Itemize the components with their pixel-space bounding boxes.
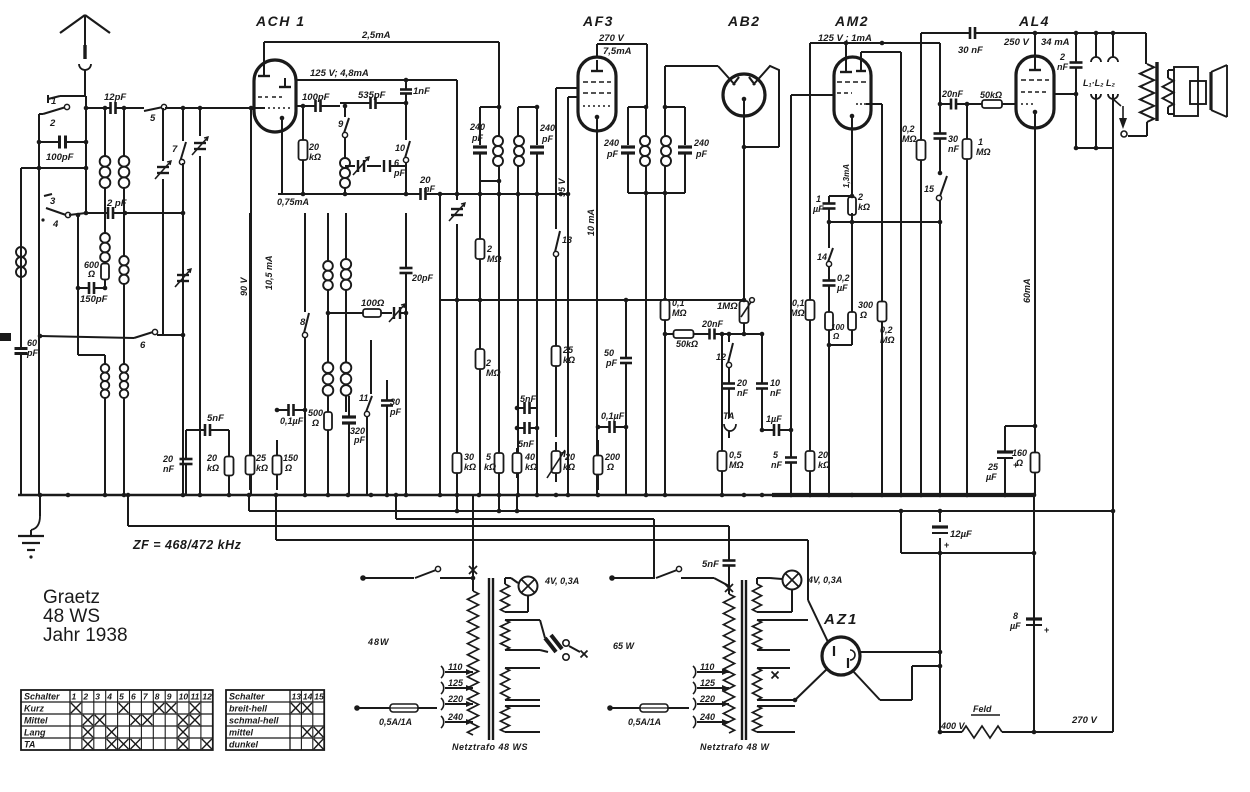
- svg-text:90 V: 90 V: [239, 276, 249, 296]
- resistor 20k am2: [806, 440, 831, 495]
- trimmer x457: [449, 80, 465, 495]
- switch 1 contact: [48, 95, 60, 107]
- trafo2 sec winding d: [753, 706, 796, 732]
- svg-text:5: 5: [773, 450, 779, 460]
- resistor Feld: [938, 704, 1113, 738]
- svg-text:60: 60: [27, 338, 37, 348]
- wire ACH1 grid right: [296, 105, 310, 107]
- svg-text:kΩ: kΩ: [818, 460, 830, 470]
- wire x251 col: [250, 108, 252, 495]
- svg-text:7: 7: [143, 692, 149, 702]
- output transformer primary: [1128, 33, 1154, 136]
- wire 2.5mA rail: [264, 30, 499, 42]
- IF1 primary bottom rail: [480, 179, 501, 194]
- svg-text:0,2: 0,2: [902, 124, 915, 134]
- svg-text:pF: pF: [353, 435, 365, 445]
- capacitor 320pF: [342, 396, 365, 495]
- svg-text:Ω: Ω: [284, 463, 292, 473]
- svg-text:ZF = 468/472 kHz: ZF = 468/472 kHz: [132, 538, 242, 552]
- resistor 0.2M am2: [878, 293, 895, 495]
- wire AZ1 anode top: [808, 540, 828, 642]
- svg-text:pF: pF: [471, 133, 483, 143]
- svg-text:60mA: 60mA: [1022, 278, 1032, 303]
- svg-text:pF: pF: [393, 168, 405, 178]
- resistor 150 ohm: [273, 440, 299, 490]
- svg-text:100Ω: 100Ω: [361, 298, 385, 309]
- switch 3: [44, 194, 71, 218]
- svg-text:nF: nF: [737, 388, 748, 398]
- trafo1 x mark: [469, 495, 477, 591]
- wire AL4 top rail: [921, 31, 1146, 36]
- wire 125V rail: [296, 78, 457, 83]
- wire IF1 feed: [498, 42, 500, 107]
- capacitor 12pF: [100, 92, 126, 114]
- svg-text:4V, 0,3A: 4V, 0,3A: [807, 575, 842, 585]
- svg-text:breit-hell: breit-hell: [229, 704, 268, 714]
- wire speaker return: [1112, 148, 1114, 511]
- IF1 coil secondary: [514, 107, 524, 196]
- svg-text:Kurz: Kurz: [24, 704, 44, 714]
- wire AB2 center down: [743, 99, 745, 299]
- wire x305 col sw8: [300, 213, 309, 495]
- svg-text:14: 14: [817, 252, 827, 262]
- trafo2 taps: [693, 666, 729, 728]
- wire x940 psu col: [939, 511, 941, 732]
- wire AZ1 filament right: [852, 664, 942, 700]
- svg-text:Jahr 1938: Jahr 1938: [43, 625, 128, 646]
- wire 12uF link: [940, 552, 1034, 554]
- wire x901 drop: [901, 511, 942, 555]
- capacitor 20pF: [400, 213, 434, 495]
- capacitor 30pF: [381, 380, 401, 495]
- svg-text:10: 10: [395, 143, 405, 153]
- wire AF3 cathode: [596, 130, 598, 495]
- svg-text:L₂: L₂: [1106, 78, 1115, 88]
- hum coil link L2 b: [1108, 33, 1118, 148]
- svg-text:0,1µF: 0,1µF: [280, 416, 304, 426]
- svg-text:160: 160: [1012, 448, 1027, 458]
- IF1 primary top rail: [480, 105, 501, 110]
- svg-text:schmal-hell: schmal-hell: [229, 716, 279, 726]
- label 400V: [940, 721, 966, 731]
- trafo2 hv mark: [772, 672, 779, 679]
- trafo2 core: [742, 580, 746, 740]
- wire y108 right: [165, 106, 265, 111]
- wire IF1 coil down: [498, 181, 500, 495]
- trafo2 primary winding: [724, 594, 735, 733]
- tube AF3 electrodes: [583, 60, 611, 130]
- label 65W: [613, 641, 636, 651]
- dial lamp left: [505, 577, 538, 613]
- trafo1 core: [489, 578, 493, 740]
- svg-text:4: 4: [52, 219, 59, 230]
- svg-text:12pF: 12pF: [104, 92, 126, 103]
- svg-text:50kΩ: 50kΩ: [980, 90, 1002, 100]
- switch 14: [817, 222, 833, 267]
- resistor 25k af3: [552, 330, 576, 382]
- wire to trafo1: [440, 576, 475, 581]
- svg-text:pF: pF: [389, 407, 401, 417]
- resistor 30k mid: [453, 448, 477, 478]
- wire bias col down: [829, 222, 852, 297]
- antenna: [60, 15, 110, 96]
- svg-text:Mittel: Mittel: [24, 716, 48, 726]
- svg-text:MΩ: MΩ: [486, 368, 501, 378]
- svg-text:8: 8: [300, 317, 306, 328]
- svg-text:30: 30: [948, 134, 958, 144]
- label fuse left: [379, 717, 412, 727]
- wire pot down: [742, 325, 747, 336]
- trimmer osc pair: [345, 157, 381, 175]
- switch 4 contact: [41, 218, 59, 230]
- wire x105 col: [103, 106, 108, 156]
- svg-text:5nF: 5nF: [207, 413, 224, 424]
- capacitor 20nF al4: [940, 89, 969, 110]
- resistor 0.2M x921: [902, 120, 926, 180]
- title 48 WS: [43, 606, 100, 627]
- mains input left: [360, 575, 414, 581]
- svg-text:kΩ: kΩ: [484, 462, 496, 472]
- IF2 secondary top rail: [663, 105, 685, 110]
- capacitor 30nF grid: [934, 120, 960, 154]
- svg-text:6: 6: [131, 692, 136, 702]
- svg-text:10 mA: 10 mA: [586, 209, 596, 236]
- mains switch left: [415, 566, 441, 578]
- capacitor 0.1uF af3: [596, 411, 629, 433]
- capacitor 1uF am2: [812, 194, 854, 216]
- resistor 50k al4: [972, 90, 1012, 108]
- wire AB2 diode link: [742, 145, 779, 150]
- terminal mark left edge: [0, 333, 11, 341]
- svg-text:Lang: Lang: [24, 728, 46, 738]
- wire antenna to sw: [60, 96, 86, 108]
- tube AL4 label: [1018, 13, 1050, 29]
- label 95V: [557, 177, 567, 197]
- label 270V: [598, 33, 624, 44]
- svg-text:4V, 0,3A: 4V, 0,3A: [544, 576, 579, 586]
- wire speaker return lower: [1112, 511, 1114, 732]
- capacitor 20nF det: [701, 319, 724, 340]
- wire AM2 anode rail: [810, 41, 940, 60]
- wire bus line L1: [249, 495, 1113, 511]
- svg-text:0,1µF: 0,1µF: [601, 411, 625, 421]
- trafo1 sec winding a: [501, 578, 512, 612]
- wire cath rail ext: [438, 192, 568, 197]
- resistor 2M upper: [476, 192, 502, 495]
- svg-text:MΩ: MΩ: [672, 308, 687, 318]
- wire det rail: [663, 332, 765, 337]
- capacitor 20nF left: [162, 430, 193, 495]
- svg-text:pF: pF: [695, 149, 707, 159]
- svg-text:30 nF: 30 nF: [958, 45, 983, 56]
- svg-text:+: +: [1044, 625, 1049, 635]
- svg-text:AB2: AB2: [727, 13, 761, 29]
- resistor 0.1M am2 grid: [790, 290, 815, 440]
- wire IF2 coil down: [645, 193, 647, 495]
- svg-text:1MΩ: 1MΩ: [717, 301, 738, 312]
- svg-text:0,2: 0,2: [880, 325, 893, 335]
- svg-text:2: 2: [1059, 52, 1065, 62]
- wire AL4 anode up: [1034, 33, 1036, 59]
- svg-text:100pF: 100pF: [302, 92, 330, 103]
- wire 100ohm link down: [326, 311, 352, 316]
- svg-text:µF: µF: [1009, 621, 1021, 631]
- svg-text:0,5A/1A: 0,5A/1A: [628, 717, 661, 727]
- svg-text:5: 5: [486, 452, 492, 462]
- capacitor 12uF elco: [932, 527, 972, 550]
- switch 6: [38, 329, 186, 351]
- capacitor 5nF mid lower: [515, 422, 540, 449]
- coil osc b bottom: [341, 340, 352, 412]
- switch table 1: [21, 690, 213, 750]
- wire x183 lower: [182, 163, 184, 495]
- tube AF3 envelope: [578, 57, 616, 131]
- resistor 20k ach1: [299, 104, 322, 197]
- svg-text:11: 11: [191, 692, 200, 702]
- wire x940 col: [938, 43, 943, 495]
- junction dots on ground bus: [38, 493, 1037, 498]
- switch 15: [924, 176, 947, 201]
- wire AF3 anode rail: [597, 44, 647, 107]
- capacitor 10nF: [756, 334, 781, 430]
- trafo1 sec winding c: [501, 668, 541, 700]
- svg-text:kΩ: kΩ: [525, 462, 537, 472]
- svg-text:pF: pF: [605, 358, 617, 368]
- svg-text:220: 220: [699, 694, 715, 704]
- svg-text:20: 20: [564, 452, 575, 462]
- label 0.75mA: [277, 197, 309, 207]
- switch 11: [359, 380, 372, 495]
- svg-text:30: 30: [464, 452, 474, 462]
- wire 600ohm bottom: [104, 281, 106, 288]
- IF2 primary top rail: [628, 105, 648, 110]
- svg-text:Schalter: Schalter: [229, 692, 265, 702]
- trafo1 sec winding b: [501, 620, 541, 650]
- svg-text:2,5mA: 2,5mA: [361, 30, 391, 41]
- capacitor 20nF ta: [723, 367, 748, 398]
- svg-text:0,5: 0,5: [729, 450, 743, 460]
- label 250V: [1003, 37, 1029, 48]
- resistor 2k am2: [848, 190, 870, 222]
- resistor 5k mid: [484, 448, 504, 478]
- wire am2 bias rail: [827, 213, 943, 224]
- resistor 300 ohm am2: [848, 297, 873, 345]
- tube AB2 label: [727, 13, 761, 29]
- resistor 600 ohm: [84, 260, 109, 281]
- switch table 2: [226, 690, 324, 750]
- svg-text:8: 8: [1013, 611, 1018, 621]
- wire grid rail: [967, 103, 1016, 105]
- label 10.5mA: [264, 255, 274, 290]
- speaker magnet: [1190, 81, 1206, 104]
- svg-text:250 V: 250 V: [1003, 37, 1029, 48]
- capacitor 100pF input: [39, 136, 86, 164]
- label 60mA: [1022, 278, 1032, 303]
- svg-text:240: 240: [603, 138, 619, 148]
- coil input a: [100, 156, 111, 188]
- svg-text:10: 10: [770, 378, 780, 388]
- resistor 40k mid: [513, 448, 538, 478]
- switch 7: [172, 142, 186, 165]
- resistor 500 ohm: [308, 400, 332, 495]
- capacitor 6pF: [384, 158, 406, 178]
- svg-text:50kΩ: 50kΩ: [676, 339, 698, 349]
- svg-text:30: 30: [390, 397, 400, 407]
- svg-text:240: 240: [469, 122, 485, 132]
- mains input right: [609, 575, 655, 581]
- capacitor 50pF: [604, 300, 632, 495]
- mains switch right: [656, 566, 682, 578]
- wire AZ1 cathode right: [860, 650, 942, 655]
- wire bus line L3: [276, 495, 808, 540]
- IF2 cap 240pF primary: [603, 107, 635, 193]
- wire AF3 left g1: [568, 97, 578, 495]
- label ZF frequency: [132, 538, 242, 552]
- svg-text:220: 220: [447, 694, 463, 704]
- tube AM2 envelope: [834, 57, 871, 129]
- svg-text:Netztrafo 48 WS: Netztrafo 48 WS: [452, 742, 528, 752]
- capacitor 2pF: [86, 198, 185, 219]
- svg-text:Ω: Ω: [606, 462, 614, 472]
- svg-text:20nF: 20nF: [941, 89, 964, 99]
- svg-text:Schalter: Schalter: [24, 692, 60, 702]
- svg-text:1µF: 1µF: [766, 414, 782, 424]
- svg-text:nF: nF: [770, 388, 781, 398]
- svg-text:150pF: 150pF: [80, 294, 108, 305]
- label lamp left: [544, 576, 579, 586]
- svg-text:nF: nF: [948, 144, 959, 154]
- svg-text:300: 300: [858, 300, 873, 310]
- svg-text:kΩ: kΩ: [563, 462, 575, 472]
- wire AM2 cathode: [851, 116, 853, 190]
- svg-text:20nF: 20nF: [701, 319, 724, 329]
- svg-text:MΩ: MΩ: [729, 460, 744, 470]
- trafo2 x mark: [725, 572, 733, 594]
- IF2 coil secondary: [661, 107, 671, 193]
- wire speaker coil rail: [1074, 146, 1113, 151]
- svg-text:+: +: [1013, 460, 1018, 470]
- svg-text:AZ1: AZ1: [823, 611, 858, 628]
- wire sw3 to node: [69, 211, 88, 216]
- wire IF1 col down b: [517, 194, 519, 495]
- svg-text:L₁·L₂: L₁·L₂: [1083, 78, 1104, 88]
- svg-text:pF: pF: [26, 348, 38, 358]
- svg-text:0,1: 0,1: [792, 298, 805, 308]
- svg-text:1: 1: [51, 96, 56, 107]
- wire x1033 psu col: [1032, 495, 1037, 732]
- coil band b: [119, 256, 128, 284]
- trimmer cap x183: [175, 269, 191, 287]
- speaker frame: [1174, 67, 1198, 116]
- label 34mA: [1041, 37, 1070, 48]
- capacitor 1uF det: [760, 414, 794, 436]
- svg-text:2: 2: [486, 244, 492, 254]
- svg-text:100pF: 100pF: [46, 152, 74, 163]
- svg-text:20: 20: [817, 450, 828, 460]
- capacitor 5nF mid upper: [515, 394, 537, 414]
- label 7.5mA: [603, 46, 632, 57]
- svg-text:10: 10: [179, 692, 189, 702]
- label Netztrafo 48 WS: [452, 742, 528, 752]
- capacitor 5nF det: [771, 450, 797, 495]
- tube AL4 envelope: [1016, 56, 1054, 128]
- svg-text:20: 20: [736, 378, 747, 388]
- svg-text:mittel: mittel: [229, 728, 254, 738]
- capacitor 20nF cath: [406, 175, 440, 200]
- svg-text:20pF: 20pF: [411, 273, 434, 283]
- svg-text:500: 500: [308, 408, 323, 418]
- label 90V: [239, 276, 249, 296]
- wire column stubs to L1: [455, 495, 520, 513]
- trafo1 primary winding: [468, 591, 479, 735]
- svg-text:pF: pF: [541, 134, 553, 144]
- trafo1 tap labels: [447, 662, 473, 725]
- resistor 160 ohm: [1012, 445, 1040, 495]
- label 48W: [367, 637, 390, 647]
- trimmer after 100ohm: [389, 304, 408, 322]
- svg-text:TA: TA: [723, 411, 734, 421]
- svg-text:9: 9: [167, 692, 172, 702]
- tube AM2 electrodes: [837, 52, 868, 118]
- node cath rail x568: [566, 192, 571, 197]
- svg-text:0,5A/1A: 0,5A/1A: [379, 717, 412, 727]
- output transformer core: [1155, 62, 1158, 121]
- wire IF1 col down c: [535, 192, 540, 495]
- svg-text:TA: TA: [24, 740, 35, 750]
- svg-text:MΩ: MΩ: [902, 134, 917, 144]
- fuse left: [354, 704, 437, 712]
- capacitor 2nF: [1057, 33, 1083, 148]
- wire ACH1 anode up: [263, 42, 265, 61]
- svg-text:13: 13: [292, 692, 302, 702]
- svg-text:2: 2: [857, 192, 863, 202]
- trafo2 tap labels: [699, 662, 729, 725]
- svg-text:14: 14: [303, 692, 313, 702]
- svg-text:240: 240: [699, 712, 715, 722]
- svg-text:kΩ: kΩ: [464, 462, 476, 472]
- svg-text:110: 110: [448, 662, 462, 672]
- dial lamp right: [757, 571, 802, 613]
- wire y168 link: [21, 166, 88, 495]
- label 125V 4.8mA: [310, 68, 369, 79]
- switch 13: [553, 231, 572, 257]
- capacitor 30nF rail: [950, 27, 995, 56]
- svg-text:kΩ: kΩ: [256, 463, 268, 473]
- svg-text:Graetz: Graetz: [43, 587, 100, 608]
- capacitor 25uF elco: [985, 424, 1037, 495]
- svg-text:µF: µF: [985, 472, 997, 482]
- svg-text:535pF: 535pF: [358, 90, 386, 101]
- svg-text:7,5mA: 7,5mA: [603, 46, 632, 57]
- svg-text:40: 40: [524, 452, 535, 462]
- svg-text:12µF: 12µF: [950, 529, 972, 540]
- wire x921 col: [920, 33, 922, 495]
- label 125V 1mA: [818, 33, 872, 44]
- resistor 25k left: [246, 213, 269, 490]
- wire AM2 screen: [861, 52, 901, 495]
- svg-text:12: 12: [202, 692, 212, 702]
- svg-text:1: 1: [978, 137, 983, 147]
- wire x183 col: [182, 108, 184, 141]
- wire x78 col: [76, 213, 105, 355]
- coil osc a top: [323, 213, 333, 290]
- coil input b: [119, 106, 130, 495]
- label Netztrafo 48 W: [700, 742, 771, 752]
- svg-text:240: 240: [447, 712, 463, 722]
- wire AZ1 anode bottom: [793, 668, 828, 702]
- svg-text:AL4: AL4: [1018, 13, 1050, 29]
- poti 20k volume: [547, 442, 575, 482]
